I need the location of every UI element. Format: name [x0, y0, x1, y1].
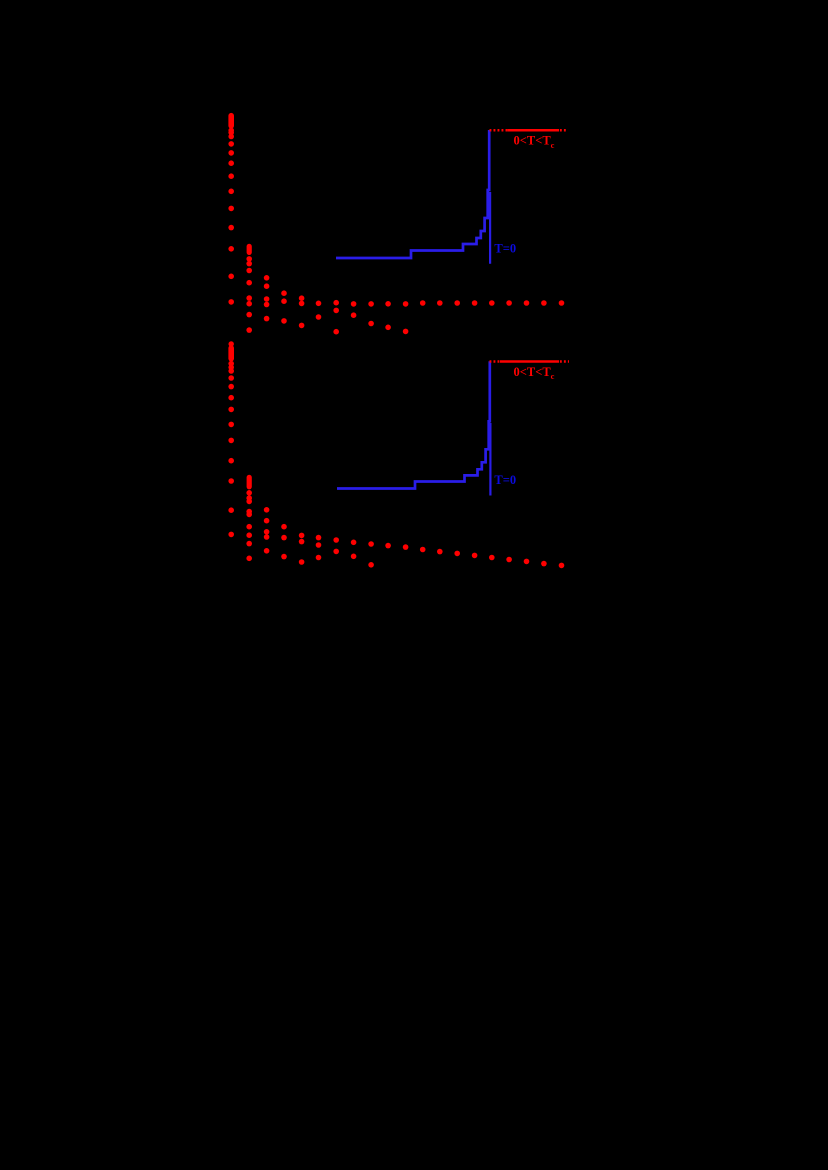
panel 2 red level dots, column k=8	[368, 541, 374, 567]
panel 1 dense level bar column k=0 bottom dot	[228, 341, 233, 347]
panel 1 red level dots, column k=3	[281, 290, 287, 323]
panel 2 dense level bar column k=1 top	[247, 477, 252, 486]
panel 1 red level dots, column k=16	[506, 300, 512, 306]
panel 2 red level dots, column k=6	[333, 537, 339, 554]
svg-text:T=0: T=0	[494, 473, 516, 487]
panel 2 red level dots, column k=14	[472, 553, 478, 559]
panel 2 red level dots, column k=17	[524, 559, 530, 565]
panel 1 red level dots, column k=4	[299, 295, 305, 328]
panel 2 red level dots, column k=9	[385, 543, 391, 549]
panel 1 red level dots, column k=5	[316, 301, 322, 320]
svg-text:T=0: T=0	[494, 242, 516, 256]
panel 1 red level dots, column k=15	[489, 300, 495, 306]
panel 2 red level dots, column k=18	[541, 561, 547, 567]
panel 2 red dotted/solid asymptote line (0<T<Tc)	[490, 360, 501, 363]
panel 2 red level dots, column k=3	[281, 524, 287, 559]
panel 2 blue spike down-stroke	[489, 423, 491, 496]
panel 1 red level dots, column k=14	[472, 300, 478, 306]
panel 1 red level dots, column k=8	[368, 301, 374, 326]
panel 2 red level dots, column k=0	[228, 361, 234, 537]
panel 2 red level dots, column k=15	[489, 555, 495, 561]
panel 2 red level dots, column k=12	[437, 549, 443, 555]
panel 2 red level dots, column k=7	[351, 540, 357, 560]
panel 2 red level dots, column k=2	[264, 507, 270, 554]
panel 1 red level dots, column k=2	[264, 275, 270, 321]
panel 1 red level dots, column k=18	[541, 300, 547, 306]
panel 1 blue step curve (T=0 distribution)	[336, 130, 489, 258]
panel 2 red level dots, column k=5	[316, 535, 322, 561]
panel 1 red level dots, column k=12	[437, 300, 443, 306]
panel 1 red level dots, column k=1	[246, 256, 252, 333]
panel 2 red level dots, column k=10	[403, 544, 409, 550]
panel 1 dense level bar column k=1 top	[247, 246, 252, 252]
panel 2 red level dots, column k=1	[246, 490, 252, 561]
panel 1 red level dots, column k=10	[403, 301, 409, 334]
svg-text:0<T<Tc: 0<T<Tc	[514, 365, 555, 381]
panel 2 red level dots, column k=4	[299, 533, 305, 565]
panel 2 red level dots, column k=13	[454, 551, 460, 557]
panel 2 blue step curve (T=0 distribution)	[337, 361, 490, 488]
panel 2 red level dots, column k=16	[506, 557, 512, 563]
panel 1 red level dots, column k=13	[454, 300, 460, 306]
panel 1 red level dots, column k=19	[559, 300, 565, 306]
panel 1 red level dots, column k=9	[385, 301, 391, 330]
panel 2 red level dots, column k=19	[559, 563, 565, 569]
panel 1 blue spike down-stroke	[489, 192, 491, 264]
panel 1 red level dots, column k=7	[351, 301, 357, 318]
svg-text:0<T<Tc: 0<T<Tc	[514, 134, 555, 150]
panel 1 red level dots, column k=17	[524, 300, 530, 306]
panel 2 dense level bar column k=0 top	[228, 348, 234, 359]
panel 1 red level dots, column k=11	[420, 300, 426, 306]
panel 2 red level dots, column k=11	[420, 547, 426, 553]
panel 1 red level dots, column k=6	[333, 300, 339, 335]
panel 1 red dotted/solid asymptote line (0<T<Tc)	[490, 129, 508, 132]
panel 1 dense level bar column k=0 top	[228, 116, 234, 126]
panel 1 red level dots, column k=0	[228, 128, 234, 305]
